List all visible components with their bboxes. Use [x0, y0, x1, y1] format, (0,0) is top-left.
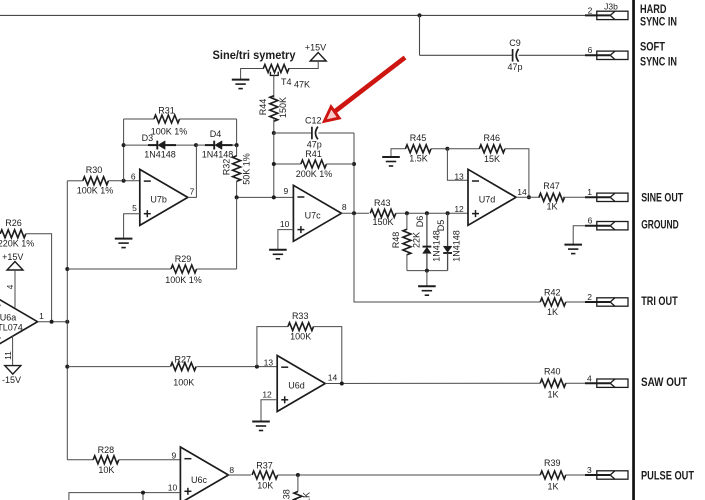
wire R30 to U7b pin6	[108, 180, 139, 182]
svg-text:5: 5	[132, 203, 137, 213]
wire R46 to U7d out	[505, 149, 529, 198]
junction D5 top	[446, 211, 450, 215]
wire R42 to connector	[566, 301, 585, 303]
resistor R26	[0, 230, 26, 238]
svg-text:50K 1%: 50K 1%	[242, 153, 252, 185]
wire U6d pin12 to ground	[261, 400, 277, 422]
wire R39 to connector	[566, 474, 585, 476]
ground clamp	[418, 286, 436, 295]
wire U6a out	[38, 321, 68, 323]
resistor R41	[301, 160, 327, 168]
resistor R28	[93, 456, 119, 464]
svg-text:R45: R45	[410, 133, 427, 143]
svg-text:10: 10	[280, 219, 290, 229]
svg-text:8: 8	[342, 202, 347, 212]
svg-text:1K: 1K	[547, 481, 558, 491]
wire node to R46	[447, 148, 479, 150]
pin D3 cathode	[148, 144, 157, 146]
connector J3b pin 2 HARD SYNC IN	[585, 11, 628, 19]
diode D4	[214, 141, 222, 150]
svg-text:4: 4	[587, 374, 592, 384]
wire TRI branch	[354, 213, 540, 302]
svg-text:T4: T4	[281, 77, 292, 87]
svg-text:1N4148: 1N4148	[144, 150, 176, 160]
junction R32/R29 node	[235, 195, 239, 199]
pin D4 cathode	[205, 144, 214, 146]
resistor R48	[403, 229, 411, 255]
-15V supply U6a	[5, 366, 21, 375]
junction R26 feedback	[50, 320, 54, 324]
wire U7c out	[341, 212, 369, 214]
svg-text:-15V: -15V	[2, 375, 21, 385]
svg-text:200K 1%: 200K 1%	[296, 169, 333, 179]
svg-text:150K: 150K	[372, 217, 393, 227]
junction U7d out	[527, 195, 531, 199]
wire to R32	[236, 145, 238, 156]
op-amp U6d	[277, 356, 325, 412]
wire connector to ground	[573, 226, 585, 245]
resistor R39	[540, 471, 566, 479]
ground connector	[564, 245, 582, 254]
svg-text:SAW OUT: SAW OUT	[641, 377, 687, 389]
junction R29	[65, 267, 69, 271]
svg-text:R33: R33	[292, 311, 309, 321]
junction hard/soft sync	[418, 13, 422, 17]
junction R33 left	[255, 365, 259, 369]
resistor R42	[540, 298, 566, 306]
svg-text:TRI OUT: TRI OUT	[641, 296, 678, 308]
connector pin 6 SOFT SYNC IN	[585, 51, 628, 59]
wire bus to R29	[67, 268, 171, 270]
junction D3 anode rail	[122, 143, 126, 147]
svg-text:100K 1%: 100K 1%	[151, 127, 188, 137]
wire right feedback vertical	[353, 133, 355, 213]
resistor R31	[154, 115, 180, 123]
connector pin 4 SAW OUT	[585, 379, 628, 387]
wire U7b feedback left vertical	[123, 119, 125, 181]
junction R41 right	[352, 162, 356, 166]
junction R48 top	[405, 211, 409, 215]
svg-text:R43: R43	[374, 198, 391, 208]
svg-text:Sine/tri symetry: Sine/tri symetry	[213, 48, 296, 62]
svg-text:R47: R47	[543, 181, 560, 191]
wire left feedback vertical	[273, 133, 275, 197]
svg-text:R38: R38	[281, 489, 291, 500]
ground U6d pin12	[252, 422, 270, 431]
wire to D4 cathode	[236, 119, 238, 145]
svg-text:1N4148: 1N4148	[202, 150, 234, 160]
svg-text:2: 2	[588, 6, 593, 16]
wire R45 to node	[431, 148, 447, 150]
svg-text:R31: R31	[158, 105, 175, 115]
svg-text:1K: 1K	[547, 307, 558, 317]
svg-text:R29: R29	[175, 254, 192, 264]
svg-text:1: 1	[39, 311, 44, 321]
ground U7c pin10	[269, 250, 287, 259]
connector pin 1 SINE OUT	[585, 193, 628, 201]
svg-text:4: 4	[5, 284, 15, 289]
svg-text:2: 2	[587, 292, 592, 302]
junction clamp ground	[425, 269, 429, 273]
wire R32 to out node	[236, 181, 238, 197]
svg-text:6: 6	[588, 45, 593, 55]
resistor R45	[405, 145, 431, 153]
wire node to U7d pin13	[447, 149, 468, 181]
svg-text:R32: R32	[222, 159, 232, 176]
svg-text:+15V: +15V	[2, 252, 23, 262]
wire +15V to U6a pin4	[14, 270, 16, 308]
svg-text:U6c: U6c	[191, 475, 208, 485]
svg-text:13: 13	[454, 171, 464, 181]
ground U7b pin5	[115, 239, 133, 248]
svg-text:U6a: U6a	[0, 312, 16, 322]
wire U6a pin11 to -15V	[12, 335, 14, 365]
svg-text:6: 6	[131, 171, 136, 181]
junction output bus	[65, 320, 69, 324]
wire R41 right	[326, 163, 354, 165]
resistor R46	[479, 145, 505, 153]
svg-text:3: 3	[587, 465, 592, 475]
svg-text:U7b: U7b	[150, 195, 167, 205]
junction R41 left	[272, 162, 276, 166]
schematic frame border	[632, 0, 635, 500]
svg-text:SOFT: SOFT	[640, 42, 665, 54]
svg-text:9: 9	[283, 186, 288, 196]
wire U7b out to diode mid	[188, 145, 197, 197]
svg-text:J3b: J3b	[604, 2, 618, 12]
wire +15V to pot	[288, 61, 318, 69]
wire U6c pin10 left	[69, 493, 180, 500]
svg-text:PULSE OUT: PULSE OUT	[641, 471, 694, 483]
wire R33 right	[314, 327, 342, 384]
wire R43 to U7d pin12	[396, 212, 468, 214]
svg-text:SYNC IN: SYNC IN	[640, 17, 677, 29]
svg-text:D6: D6	[415, 216, 425, 228]
wire bus to R27	[67, 366, 170, 368]
svg-text:R40: R40	[544, 366, 561, 376]
wire pin10 branch down	[142, 493, 144, 500]
wire PULSE row	[278, 474, 541, 476]
svg-text:U6d: U6d	[288, 381, 305, 391]
op-amp U7d	[468, 169, 516, 225]
svg-text:1N4148: 1N4148	[432, 230, 442, 262]
wire clamp bottom rail	[407, 270, 448, 272]
svg-text:D5: D5	[436, 220, 446, 232]
wire U7d out to R47	[516, 196, 540, 198]
svg-text:7: 7	[190, 186, 195, 196]
junction U7c out / TRI branch	[352, 211, 356, 215]
wire U6d out SAW	[325, 382, 540, 384]
wire R29 to vertical	[197, 268, 237, 270]
svg-text:10K: 10K	[257, 481, 273, 491]
svg-text:10K: 10K	[98, 465, 114, 475]
svg-text:100K 1%: 100K 1%	[165, 275, 202, 285]
wire R33 left	[257, 327, 288, 367]
svg-text:1N4148: 1N4148	[452, 230, 462, 262]
wire soft sync left	[420, 54, 513, 56]
wire R40 to connector	[566, 382, 585, 384]
svg-text:R39: R39	[544, 458, 561, 468]
op-amp U6c	[180, 447, 228, 500]
wire to U7c pin 9	[237, 196, 294, 198]
svg-text:R26: R26	[5, 218, 22, 228]
svg-text:100K: 100K	[173, 377, 194, 387]
wire D4 to corner	[233, 144, 237, 146]
potentiometer T4 track	[263, 65, 289, 73]
connector pin 6 GROUND	[585, 222, 628, 230]
svg-text:C9: C9	[509, 38, 521, 48]
diode D6	[423, 247, 432, 254]
wire wiper to R44	[273, 75, 275, 97]
ground R45	[382, 157, 400, 166]
svg-text:C12: C12	[305, 116, 322, 126]
wire U7b pin5 to ground	[124, 214, 140, 239]
wire to D5	[447, 213, 449, 246]
op-amp U7c	[293, 185, 341, 241]
wire clamp to ground	[426, 271, 428, 287]
op-amp U6a	[0, 294, 38, 350]
svg-text:SYNC IN: SYNC IN	[640, 57, 677, 69]
svg-text:R44: R44	[258, 99, 268, 116]
wire D3-D4 mid	[176, 144, 196, 146]
wire pot to ground	[241, 69, 264, 80]
svg-text:100K: 100K	[290, 332, 311, 342]
wire to R48	[406, 213, 408, 230]
resistor R40	[540, 379, 566, 387]
svg-text:R46: R46	[484, 133, 501, 143]
svg-text:U7c: U7c	[305, 210, 322, 220]
resistor R29	[171, 265, 197, 273]
wire R28 to U6c pin9	[119, 459, 181, 461]
wire R48 bottom	[406, 254, 408, 271]
diode D3	[157, 141, 165, 150]
wire mid to D4	[196, 144, 205, 146]
svg-text:10: 10	[168, 483, 178, 493]
wire to R38	[297, 475, 299, 492]
junction C12 node	[272, 131, 276, 135]
svg-text:GROUND: GROUND	[641, 220, 679, 232]
resistor R47	[539, 193, 565, 201]
wire C12 to right	[318, 132, 354, 134]
wire R27 to U6d pin13	[197, 366, 278, 368]
svg-text:100K 1%: 100K 1%	[77, 186, 114, 196]
svg-text:12: 12	[262, 389, 272, 399]
svg-text:6: 6	[588, 216, 593, 226]
+15V supply symbol	[310, 53, 326, 62]
svg-text:22K: 22K	[411, 232, 421, 248]
svg-text:R41: R41	[305, 149, 322, 159]
svg-text:8: 8	[229, 465, 234, 475]
junction pin9 node	[272, 195, 276, 199]
svg-text:TL074: TL074	[0, 322, 23, 332]
junction D6 top	[425, 211, 429, 215]
connector pin 3 PULSE OUT	[585, 471, 628, 479]
resistor R32	[233, 156, 241, 182]
pin D4 anode	[222, 144, 233, 146]
junction U7b pin 6	[122, 179, 126, 183]
svg-text:47K: 47K	[294, 79, 310, 89]
resistor R38 (clipped)	[294, 492, 302, 500]
wire soft sync right	[519, 54, 597, 56]
wire down to R29	[236, 197, 238, 269]
svg-text:47p: 47p	[507, 62, 522, 72]
svg-text:14: 14	[328, 373, 338, 383]
wire R41 left	[274, 163, 301, 165]
wire U7c pin10 to ground	[278, 230, 294, 250]
op-amp U7b	[140, 169, 188, 225]
capacitor C12	[312, 127, 318, 140]
svg-text:U7d: U7d	[479, 194, 496, 204]
resistor R44	[270, 96, 278, 122]
svg-text:R37: R37	[256, 460, 273, 470]
wire sync drop	[419, 15, 421, 55]
wire U6c out	[228, 474, 251, 476]
wire bus corner to R28	[67, 459, 93, 461]
junction diode midpoint	[194, 143, 198, 147]
red annotation arrow	[324, 58, 405, 122]
svg-text:SINE OUT: SINE OUT	[641, 192, 683, 204]
wire to C12	[274, 132, 312, 134]
wire R26 feedback	[26, 234, 52, 322]
wire R31 right	[180, 118, 237, 120]
svg-text:R48: R48	[391, 232, 401, 249]
ground pot left	[232, 80, 250, 89]
svg-text:13: 13	[264, 357, 274, 367]
svg-text:+15V: +15V	[305, 43, 326, 53]
wire R44 to C12 node	[273, 119, 275, 133]
junction R45/R46/pin13	[445, 147, 449, 151]
wire distribution bus vertical	[66, 181, 68, 460]
resistor R33	[288, 323, 314, 331]
wire D5 bottom	[447, 253, 449, 270]
resistor R37	[252, 471, 278, 479]
junction D4/R32	[235, 143, 239, 147]
diode D5	[443, 246, 452, 253]
svg-text:15K: 15K	[484, 154, 500, 164]
svg-text:R28: R28	[98, 445, 115, 455]
svg-text:1K: 1K	[547, 390, 558, 400]
svg-text:D4: D4	[210, 129, 222, 139]
svg-text:D3: D3	[142, 133, 154, 143]
svg-text:1: 1	[587, 187, 592, 197]
svg-text:R42: R42	[544, 287, 561, 297]
connector pin 2 TRI OUT	[585, 298, 628, 306]
svg-text:R27: R27	[175, 355, 192, 365]
+15V supply U6a	[7, 262, 23, 271]
svg-text:R30: R30	[86, 165, 103, 175]
potentiometer T4 wiper	[270, 72, 278, 76]
junction R38	[296, 473, 300, 477]
wire D6 bottom	[426, 253, 428, 270]
resistor R43	[370, 209, 396, 217]
svg-text:1K: 1K	[546, 202, 557, 212]
wire R47 to connector	[563, 196, 585, 198]
resistor R27	[171, 363, 197, 371]
junction R27	[65, 365, 69, 369]
wire bus to R30	[67, 180, 83, 182]
svg-text:1.5K: 1.5K	[409, 154, 428, 164]
wire to D3	[124, 144, 148, 146]
svg-text:HARD: HARD	[640, 4, 667, 16]
wire ground to R45	[391, 149, 405, 157]
junction pin10 branch	[141, 491, 145, 495]
svg-text:9: 9	[171, 450, 176, 460]
capacitor C9	[513, 49, 519, 62]
pin D3 anode	[165, 144, 176, 146]
svg-text:14: 14	[517, 187, 527, 197]
wire hard-sync top rail	[0, 14, 597, 16]
wire to D6	[426, 213, 428, 246]
svg-text:1K: 1K	[301, 492, 311, 500]
svg-text:220K 1%: 220K 1%	[0, 239, 34, 249]
svg-text:11: 11	[3, 351, 13, 360]
wire R31 left	[124, 118, 154, 120]
svg-text:150K: 150K	[278, 97, 288, 118]
svg-text:12: 12	[454, 204, 464, 214]
resistor R30	[83, 177, 109, 185]
junction R33/out	[340, 382, 344, 386]
